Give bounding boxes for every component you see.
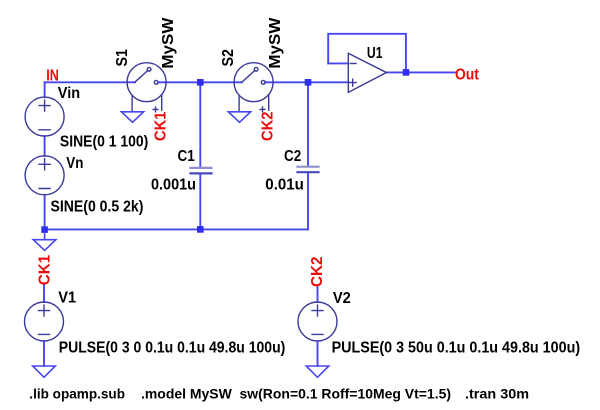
wire V2 bottom to ground xyxy=(317,341,319,366)
ground under V1 xyxy=(33,366,56,377)
wire CK1 label to V1 top xyxy=(43,285,45,302)
wire C1 bottom lead xyxy=(199,174,201,230)
switch S2 xyxy=(234,63,273,112)
svg-text:S2: S2 xyxy=(220,49,237,67)
svg-text:.lib opamp.sub: .lib opamp.sub xyxy=(29,385,125,401)
wire feedback to minus input xyxy=(328,62,348,64)
svg-text:SINE(0 0.5 2k): SINE(0 0.5 2k) xyxy=(51,198,144,215)
svg-text:PULSE(0 3 0 0.1u 0.1u 49.8u 10: PULSE(0 3 0 0.1u 0.1u 49.8u 100u) xyxy=(59,339,285,356)
node junction S2-opamp xyxy=(305,79,312,86)
svg-text:MySW: MySW xyxy=(267,17,284,69)
wire main horizontal IN to S1 pivot xyxy=(45,81,135,83)
node ground rail left xyxy=(41,226,48,233)
ground under Vn node xyxy=(33,233,56,251)
svg-text:CK1: CK1 xyxy=(36,255,53,286)
svg-text:CK2: CK2 xyxy=(260,111,277,141)
wire V1 bottom to ground xyxy=(43,341,45,366)
svg-text:CK1: CK1 xyxy=(153,111,170,141)
svg-text:CK2: CK2 xyxy=(309,256,326,287)
svg-text:Vin: Vin xyxy=(58,85,80,102)
wire op-amp output to Out xyxy=(386,71,455,73)
wire C2 top lead xyxy=(307,82,309,166)
svg-text:MySW: MySW xyxy=(160,17,177,69)
svg-text:Vn: Vn xyxy=(66,155,83,172)
svg-text:IN: IN xyxy=(46,67,59,84)
svg-text:C2: C2 xyxy=(284,148,301,165)
ground under S2 xyxy=(228,112,250,123)
svg-text:PULSE(0 3 50u 0.1u 0.1u 49.8u: PULSE(0 3 50u 0.1u 0.1u 49.8u 100u) xyxy=(332,339,580,356)
svg-text:C1: C1 xyxy=(178,148,195,165)
svg-text:S1: S1 xyxy=(114,49,131,67)
wire op-amp feedback loop xyxy=(328,34,406,73)
svg-text:SINE(0 1 100): SINE(0 1 100) xyxy=(60,133,148,150)
voltage source Vn xyxy=(25,156,64,195)
wire Vn bottom to bottom rail xyxy=(44,195,46,230)
wire S1 contact to S2 pivot xyxy=(158,81,242,83)
capacitor C1 xyxy=(191,168,212,174)
svg-text:V2: V2 xyxy=(333,290,351,307)
wire CK2 label to V2 top xyxy=(317,286,319,302)
wire S2 contact to op-amp plus input xyxy=(265,81,348,83)
op-amp U1 xyxy=(348,53,386,92)
svg-text:0.001u: 0.001u xyxy=(151,177,196,194)
voltage source Vin xyxy=(25,97,64,136)
node output xyxy=(403,69,410,76)
switch S1 xyxy=(127,63,166,112)
wire C1 top lead xyxy=(199,82,201,167)
svg-text:V1: V1 xyxy=(58,290,76,307)
wire Vin bottom to Vn top xyxy=(44,136,46,156)
ground under S1 xyxy=(121,112,143,123)
svg-text:0.01u: 0.01u xyxy=(265,177,304,194)
voltage source V2 xyxy=(298,302,337,341)
capacitor C2 xyxy=(298,167,319,173)
voltage source V1 xyxy=(25,302,64,341)
svg-text:Out: Out xyxy=(455,67,479,84)
node C1 bottom rail xyxy=(197,226,204,233)
ground under V2 xyxy=(306,366,329,377)
svg-text:.model MySW sw(Ron=0.1 Roff=1: .model MySW sw(Ron=0.1 Roff=10Meg Vt=1.5… xyxy=(141,385,451,401)
svg-text:.tran 30m: .tran 30m xyxy=(465,385,529,401)
wire IN node vertical to Vin top xyxy=(44,82,46,97)
wire bottom rail xyxy=(45,228,308,230)
node junction S1-S2 xyxy=(197,79,204,86)
wire C2 bottom lead xyxy=(307,173,309,230)
svg-text:U1: U1 xyxy=(367,45,383,62)
